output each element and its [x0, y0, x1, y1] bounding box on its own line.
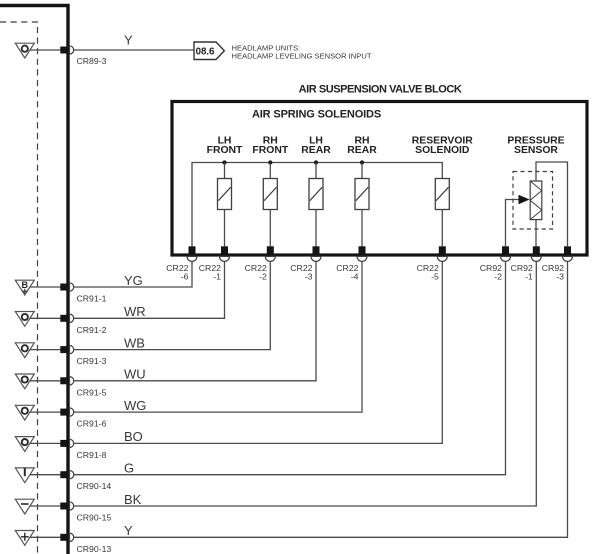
svg-text:FRONT: FRONT — [207, 145, 243, 156]
svg-text:SENSOR: SENSOR — [514, 145, 558, 156]
svg-text:FRONT: FRONT — [252, 145, 288, 156]
off-page reference 08.6 — [194, 42, 224, 60]
ignition feed symbol (CR90-14) — [15, 468, 34, 483]
socket CR22-5 — [437, 256, 447, 261]
junction on supply wire at LH FRONT — [222, 160, 226, 164]
svg-text:B: B — [22, 280, 29, 290]
svg-text:WG: WG — [124, 398, 146, 413]
pressure sensor dashed outline — [513, 172, 553, 230]
wire solenoid RH FRONT to pin — [269, 210, 271, 247]
svg-text:-5: -5 — [431, 272, 439, 282]
in-line connector symbol (CR91-6) — [15, 405, 34, 420]
svg-text:-1: -1 — [525, 272, 533, 282]
socket CR22-3 — [311, 256, 321, 261]
svg-text:CR91-5: CR91-5 — [77, 387, 107, 397]
socket CR91-1 — [70, 283, 74, 291]
socket CR22-1 — [220, 256, 230, 261]
svg-text:-4: -4 — [351, 272, 359, 282]
svg-text:CR90-15: CR90-15 — [77, 513, 112, 523]
wire solenoid LH FRONT to pin — [224, 210, 226, 247]
svg-text:AIR SUSPENSION VALVE BLOCK: AIR SUSPENSION VALVE BLOCK — [299, 83, 462, 95]
wire reservoir solenoid to pin — [441, 210, 443, 247]
wire triangle to bus (CR91-3) — [30, 349, 61, 351]
in-line connector symbol (CR89-3 source) — [15, 43, 34, 58]
wire triangle to bus (CR89-3) — [30, 49, 61, 51]
battery feed symbol (CR91-1) — [15, 280, 34, 295]
pin CR91-1 — [60, 284, 68, 291]
svg-text:CR89-3: CR89-3 — [77, 56, 107, 66]
power bus bar — [0, 6, 68, 554]
wire BO from CR91-8 to valve block — [74, 261, 443, 443]
svg-text:CR91-1: CR91-1 — [77, 294, 107, 304]
valve block enclosure — [172, 102, 587, 256]
svg-text:08.6: 08.6 — [196, 47, 215, 58]
svg-text:YG: YG — [124, 273, 143, 288]
socket CR91-2 — [70, 314, 74, 322]
pin CR92-2 — [502, 246, 509, 254]
svg-text:-1: -1 — [213, 272, 221, 282]
pin CR22-3 — [313, 246, 320, 254]
wiper arrow — [519, 195, 530, 204]
wire sensor wiper to CR92-2 — [506, 200, 520, 247]
pin CR22-1 — [221, 246, 228, 254]
svg-text:-2: -2 — [494, 272, 502, 282]
pin CR91-2 — [60, 315, 68, 322]
wire Y to headlamp reference — [74, 49, 194, 51]
in-line connector symbol (CR91-8) — [15, 437, 34, 452]
wire triangle to bus (CR91-8) — [30, 442, 61, 444]
pin CR91-3 — [60, 346, 68, 353]
pin CR92-3 — [564, 246, 571, 254]
svg-text:CR91-2: CR91-2 — [77, 325, 107, 335]
socket CR89-3 — [70, 46, 74, 54]
pin CR22-2 — [267, 246, 274, 254]
socket CR90-13 — [70, 533, 74, 541]
wire Y from CR90-13 to valve block — [74, 261, 568, 537]
socket CR92-1 — [531, 256, 541, 261]
solenoid LH FRONT — [218, 163, 232, 210]
in-line connector symbol (CR91-2) — [15, 312, 34, 327]
solenoid RH REAR — [355, 163, 369, 210]
solenoid LH REAR — [309, 163, 323, 210]
svg-text:Y: Y — [124, 33, 133, 48]
svg-text:BK: BK — [124, 492, 142, 507]
pin CR22-5 — [439, 246, 446, 254]
svg-text:-3: -3 — [556, 272, 564, 282]
socket CR91-8 — [70, 439, 74, 447]
wire triangle to bus (CR90-13) — [30, 536, 61, 538]
pin CR91-6 — [60, 409, 68, 416]
svg-text:CR91-3: CR91-3 — [77, 356, 107, 366]
wire triangle to bus (CR90-15) — [30, 505, 61, 507]
pin CR92-1 — [533, 246, 540, 254]
wire sensor bottom to CR92-1 — [535, 220, 537, 247]
wire WU from CR91-5 to valve block — [74, 261, 316, 381]
socket CR92-2 — [501, 256, 511, 261]
wire solenoid RH REAR to pin — [361, 210, 363, 247]
wire WR from CR91-2 to valve block — [74, 261, 225, 318]
pressure sensor element (variable resistor) — [530, 181, 542, 220]
reservoir solenoid — [435, 179, 449, 210]
wire triangle to bus (CR91-2) — [30, 317, 61, 319]
svg-text:BO: BO — [124, 429, 143, 444]
svg-text:CR90-13: CR90-13 — [77, 544, 112, 554]
pin CR89-3 — [60, 47, 68, 54]
pin CR22-4 — [359, 246, 366, 254]
wire triangle to bus (CR91-6) — [30, 411, 61, 413]
pin CR90-15 — [60, 503, 68, 510]
in-line connector symbol (CR91-5) — [15, 374, 34, 389]
svg-text:CR91-6: CR91-6 — [77, 419, 107, 429]
svg-text:SOLENOID: SOLENOID — [415, 145, 470, 156]
battery positive symbol (CR90-13) — [15, 531, 34, 546]
svg-text:Y: Y — [124, 523, 133, 538]
junction on supply wire at RH FRONT — [268, 160, 272, 164]
svg-text:WB: WB — [124, 335, 145, 350]
svg-text:WR: WR — [124, 304, 146, 319]
junction on supply wire at LH REAR — [314, 160, 318, 164]
svg-text:HEADLAMP LEVELING SENSOR INPUT: HEADLAMP LEVELING SENSOR INPUT — [232, 52, 372, 61]
svg-text:-3: -3 — [305, 272, 313, 282]
wire triangle to bus (CR90-14) — [30, 474, 61, 476]
wire BK from CR90-15 to valve block — [74, 261, 537, 506]
wire triangle to bus (CR91-5) — [30, 380, 61, 382]
svg-text:-2: -2 — [259, 272, 267, 282]
socket CR91-5 — [70, 377, 74, 385]
socket CR91-6 — [70, 408, 74, 416]
socket CR90-15 — [70, 502, 74, 510]
junction on supply wire at RH REAR — [360, 160, 364, 164]
pin CR22-6 — [189, 246, 196, 254]
socket CR91-3 — [70, 345, 74, 353]
wire solenoid LH REAR to pin — [315, 210, 317, 247]
svg-text:-6: -6 — [181, 272, 189, 282]
socket CR22-4 — [357, 256, 367, 261]
svg-text:G: G — [124, 461, 134, 476]
socket CR22-2 — [265, 256, 275, 261]
harness boundary (dashed) — [0, 22, 38, 554]
pin CR90-13 — [60, 534, 68, 541]
socket CR22-6 — [187, 256, 197, 261]
svg-text:AIR SPRING SOLENOIDS: AIR SPRING SOLENOIDS — [252, 109, 381, 121]
solenoid common supply wire — [192, 163, 442, 247]
wire G from CR90-14 to valve block — [74, 261, 506, 474]
svg-text:REAR: REAR — [347, 145, 377, 156]
ground symbol (CR90-15) — [15, 499, 34, 514]
socket CR90-14 — [70, 471, 74, 479]
in-line connector symbol (CR91-3) — [15, 343, 34, 358]
pin CR91-5 — [60, 377, 68, 384]
wire triangle to bus (CR91-1) — [30, 286, 61, 288]
wire YG from CR91-1 to valve block — [74, 261, 192, 287]
svg-text:CR90-14: CR90-14 — [77, 481, 112, 491]
wire WB from CR91-3 to valve block — [74, 261, 271, 349]
socket CR92-3 — [563, 256, 573, 261]
solenoid RH FRONT — [263, 163, 277, 210]
pin CR91-8 — [60, 440, 68, 447]
svg-text:REAR: REAR — [301, 145, 331, 156]
wire sensor top to CR92-3 — [536, 162, 568, 246]
pin CR90-14 — [60, 471, 68, 478]
wire WG from CR91-6 to valve block — [74, 261, 362, 412]
svg-text:WU: WU — [124, 367, 146, 382]
svg-text:CR91-8: CR91-8 — [77, 450, 107, 460]
